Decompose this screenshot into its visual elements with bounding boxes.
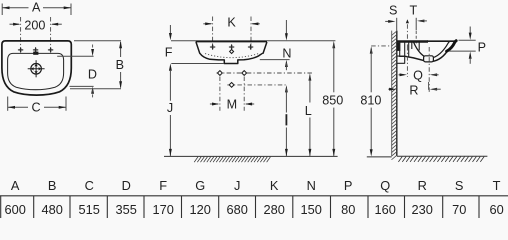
svg-text:F: F	[159, 178, 167, 193]
svg-text:600: 600	[5, 202, 26, 217]
svg-text:280: 280	[264, 202, 285, 217]
svg-text:J: J	[234, 178, 240, 193]
svg-text:D: D	[122, 178, 131, 193]
svg-text:680: 680	[227, 202, 248, 217]
svg-text:T: T	[410, 3, 418, 17]
svg-text:480: 480	[42, 202, 63, 217]
svg-text:K: K	[227, 16, 236, 30]
svg-text:A: A	[32, 0, 41, 14]
svg-text:J: J	[167, 101, 173, 115]
svg-text:150: 150	[301, 202, 322, 217]
svg-text:P: P	[344, 178, 353, 193]
svg-text:B: B	[116, 58, 124, 72]
svg-text:C: C	[31, 101, 40, 115]
svg-text:200: 200	[24, 18, 45, 32]
svg-text:515: 515	[79, 202, 100, 217]
svg-text:70: 70	[452, 202, 466, 217]
svg-text:L: L	[305, 104, 312, 118]
svg-text:D: D	[88, 67, 97, 81]
svg-text:S: S	[389, 3, 397, 17]
svg-text:M: M	[227, 98, 238, 112]
svg-text:S: S	[455, 178, 464, 193]
svg-text:120: 120	[190, 202, 211, 217]
svg-text:A: A	[11, 178, 20, 193]
svg-text:60: 60	[489, 202, 503, 217]
svg-text:170: 170	[153, 202, 174, 217]
svg-text:R: R	[418, 178, 427, 193]
svg-text:230: 230	[412, 202, 433, 217]
svg-text:355: 355	[116, 202, 137, 217]
svg-text:Q: Q	[413, 69, 423, 83]
svg-text:N: N	[282, 46, 291, 60]
svg-text:850: 850	[322, 94, 343, 108]
svg-text:C: C	[85, 178, 94, 193]
svg-text:810: 810	[360, 94, 381, 108]
svg-text:F: F	[165, 46, 173, 60]
svg-text:80: 80	[341, 202, 355, 217]
svg-text:Q: Q	[380, 178, 390, 193]
svg-text:G: G	[195, 178, 205, 193]
svg-text:P: P	[478, 40, 486, 54]
svg-text:R: R	[409, 83, 418, 97]
svg-text:T: T	[493, 178, 501, 193]
svg-text:B: B	[48, 178, 57, 193]
svg-text:N: N	[307, 178, 316, 193]
svg-text:K: K	[270, 178, 279, 193]
svg-text:160: 160	[375, 202, 396, 217]
